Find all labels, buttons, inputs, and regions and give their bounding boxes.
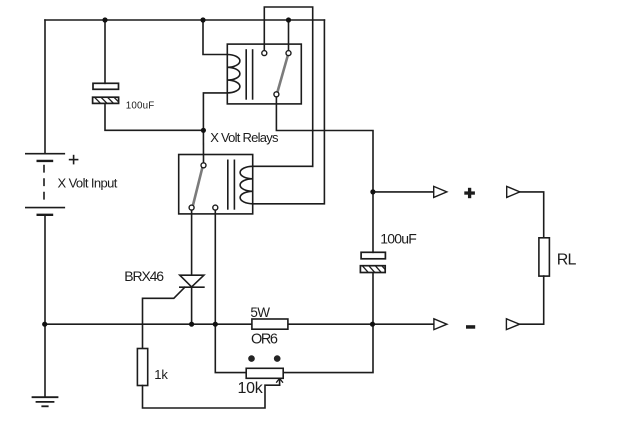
resistor RL [539, 238, 550, 276]
potentiometer VR1 10k [246, 368, 283, 378]
node minus right [370, 322, 375, 327]
wire load bottom [520, 276, 544, 324]
wire thyristor cathode to minus rail [191, 287, 193, 324]
relay K1 core [245, 50, 247, 99]
node plus [370, 189, 375, 194]
ground [33, 397, 58, 406]
wire top link box [264, 7, 312, 166]
capacitor C2 100uF [360, 252, 385, 272]
relay K2 coil [240, 166, 253, 204]
node cap1 top [102, 17, 107, 22]
svg-text:X Volt Relays: X Volt Relays [210, 130, 279, 145]
wire right rail lower [283, 273, 373, 373]
svg-text:10k: 10k [238, 380, 264, 397]
wire coil2 top link [253, 165, 313, 167]
wire 1k bottom to wiper [143, 385, 280, 408]
svg-text:100uF: 100uF [126, 100, 155, 111]
wire cap C1 top lead [104, 20, 106, 83]
wire thyristor gate [143, 287, 185, 348]
wire coil1 bottom feed [203, 93, 227, 130]
wire relay1 contact drop [288, 20, 290, 53]
contact relay2 pin b [213, 205, 218, 210]
contact relay1 pin b [286, 51, 291, 56]
resistor R2 5W OR6 [252, 319, 288, 329]
wire cap C1 bottom lead to node A [105, 103, 203, 130]
wire load top [520, 192, 544, 238]
svg-text:OR6: OR6 [251, 332, 278, 348]
relay contact terminals [189, 51, 291, 211]
pot marker dot right [274, 355, 281, 362]
relay K1 switch arm [278, 56, 288, 92]
wire plus output [373, 191, 434, 193]
contact relay2 common [201, 163, 206, 168]
wire left rail lower [44, 215, 46, 397]
wire left rail upper [44, 20, 46, 154]
node minus left [42, 322, 47, 327]
minus symbol output [466, 325, 475, 329]
plus symbol output [464, 188, 475, 329]
pot marker dot left [248, 355, 255, 362]
node thyristor cathode [189, 322, 194, 327]
resistor R1 1k [137, 349, 147, 386]
minus rail [45, 323, 434, 325]
capacitor C1 100uF [93, 83, 119, 103]
node A [201, 128, 206, 133]
relay K1 coil [227, 54, 240, 92]
relay K2 core [227, 160, 229, 209]
svg-text:RL: RL [557, 251, 577, 268]
svg-text:1k: 1k [154, 367, 168, 382]
svg-text:X Volt Input: X Volt Input [58, 175, 118, 190]
node relay1 contact b [286, 17, 291, 22]
svg-text:100uF: 100uF [380, 230, 416, 246]
wire relay2 NO contact down to pot left [215, 208, 246, 373]
wire top rail drop to coil2 bottom [253, 20, 325, 204]
arrow plus output [434, 186, 447, 197]
relay K1 box [227, 44, 301, 104]
battery B1 X Volt Input [26, 154, 78, 215]
contact relay1 pin a [262, 51, 267, 56]
relay K2 box [179, 155, 253, 214]
contact relay1 common [274, 92, 279, 97]
svg-text:BRX46: BRX46 [124, 268, 164, 284]
wire relay2 contact to thyristor anode [191, 208, 193, 276]
svg-text:5W: 5W [250, 305, 270, 320]
wiper arrow of pot [277, 378, 283, 385]
wire coil1 top feed [203, 20, 227, 55]
node coil1 top [200, 17, 205, 22]
thyristor Q1 BRX46 [180, 275, 204, 287]
node pot left [213, 322, 218, 327]
arrow minus load side [506, 319, 519, 330]
wire top rail [45, 19, 324, 21]
contact relay2 pin a [189, 205, 194, 210]
wire relay1 switched output to right rail [276, 94, 373, 252]
arrow plus load side [507, 186, 520, 197]
wire node A to relay2 common contact [202, 130, 204, 165]
relay K2 switch arm [193, 167, 203, 205]
arrow minus output [434, 319, 447, 330]
